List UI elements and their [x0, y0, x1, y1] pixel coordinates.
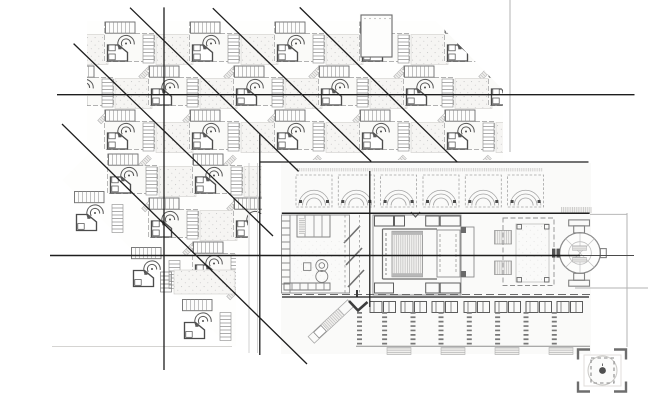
overlay horizontal H2	[260, 161, 589, 163]
extra tail terrace	[174, 270, 235, 294]
housing unit j0-2	[105, 22, 194, 80]
overlay diagonal D4	[74, 44, 273, 236]
north arm	[569, 220, 607, 286]
housing edge unit E2	[132, 248, 181, 289]
overlay horizontal H5	[282, 296, 589, 298]
tail comb ladder	[161, 272, 172, 292]
housing unit j1-3	[234, 66, 323, 124]
overlay diagonal D5	[62, 124, 307, 364]
south rooms	[375, 283, 461, 293]
housing edge unit E1	[75, 192, 124, 233]
housing unit j1-5	[404, 66, 493, 124]
housing unit j1-1	[64, 66, 153, 124]
overlay horizontal H4 thin east segment	[580, 255, 634, 257]
housing unit j4-2	[149, 198, 238, 256]
monastery main band walls	[282, 215, 350, 293]
housing unit j2-3	[275, 110, 364, 168]
east court	[461, 227, 474, 277]
nw rooms	[297, 215, 330, 237]
housing unit j0-5	[360, 22, 449, 80]
south rooms cluster 5	[495, 302, 521, 313]
stage	[437, 230, 460, 277]
overlay diagonal D3	[300, 7, 458, 162]
faint vertical north	[509, 0, 511, 152]
housing unit j4-3	[234, 198, 323, 256]
overlay horizontal H1	[57, 94, 635, 96]
housing unit j0-6	[445, 22, 534, 80]
west court faint floor	[294, 241, 340, 281]
housing unit j2-5	[445, 110, 534, 168]
faint horizontal east	[575, 287, 648, 289]
south rooms cluster 6	[526, 302, 552, 313]
overlay diagonal D2	[213, 8, 371, 161]
faint band west of monastery	[248, 163, 250, 353]
west block outline	[282, 215, 350, 293]
chapel 5	[465, 175, 501, 207]
south wing rooms band	[370, 302, 583, 313]
south rooms cluster 4	[464, 302, 490, 313]
cloister connector mats	[495, 231, 512, 245]
housing unit j0-1	[20, 22, 109, 80]
dark chevron	[349, 301, 368, 311]
overlay vertical V1	[163, 7, 165, 370]
housing unit j1-4	[319, 66, 408, 124]
estate ground wash	[57, 13, 503, 353]
overlay horizontal H3	[282, 212, 590, 214]
housing unit j0-3	[190, 22, 279, 80]
faint north wall east	[590, 213, 627, 215]
rotunda	[552, 220, 606, 286]
chapel 6	[508, 175, 544, 207]
faint ground line	[52, 346, 232, 348]
housing unit j1-2	[149, 66, 238, 124]
overlay vertical V3	[369, 171, 371, 307]
housing unit j1-6	[489, 66, 578, 124]
radial wedges	[566, 233, 595, 274]
south wing bottom line	[356, 345, 590, 347]
overlay horizontal H4	[50, 255, 580, 257]
south cells row	[284, 283, 330, 290]
overlay vertical V2	[259, 134, 261, 355]
south rooms cluster 7	[557, 302, 583, 313]
faint vertical east	[626, 213, 628, 347]
auditorium	[373, 212, 474, 295]
housing unit j3-1	[108, 154, 197, 212]
housing unit j0-4	[275, 22, 364, 80]
west cell comb	[282, 221, 291, 284]
north wall east hatch	[561, 207, 592, 213]
baptistry twin circles	[304, 260, 328, 283]
south wing dashed cloister edges	[360, 312, 555, 345]
overlay diagonal D1	[130, 8, 299, 172]
housing unit j2-4	[360, 110, 449, 168]
north rooms	[375, 212, 461, 226]
monastery south wall dashed	[282, 294, 590, 296]
top row tall block	[361, 15, 392, 57]
se pavilion	[578, 350, 626, 392]
chapel 3	[381, 175, 417, 207]
monastery paper wash	[281, 163, 591, 354]
south rooms cluster 3	[432, 302, 458, 313]
housing unit j2-1	[105, 110, 194, 168]
chapel top band	[296, 168, 543, 171]
hall walls	[383, 229, 438, 279]
south rooms cluster 2	[401, 302, 427, 313]
east cloister court	[503, 218, 554, 286]
chapel 2	[338, 175, 374, 207]
sw entrance ramp	[308, 290, 367, 343]
chapels row	[296, 168, 592, 213]
housing unit j3-2	[193, 154, 282, 212]
garden mats	[387, 348, 573, 355]
housing edge unit E3 (tail)	[183, 300, 232, 341]
chapel 4	[423, 175, 459, 207]
housing unit j5-2	[193, 242, 282, 300]
west court stairs diagonals	[344, 226, 364, 287]
seat bank	[392, 231, 423, 276]
housing unit j2-2	[190, 110, 279, 168]
